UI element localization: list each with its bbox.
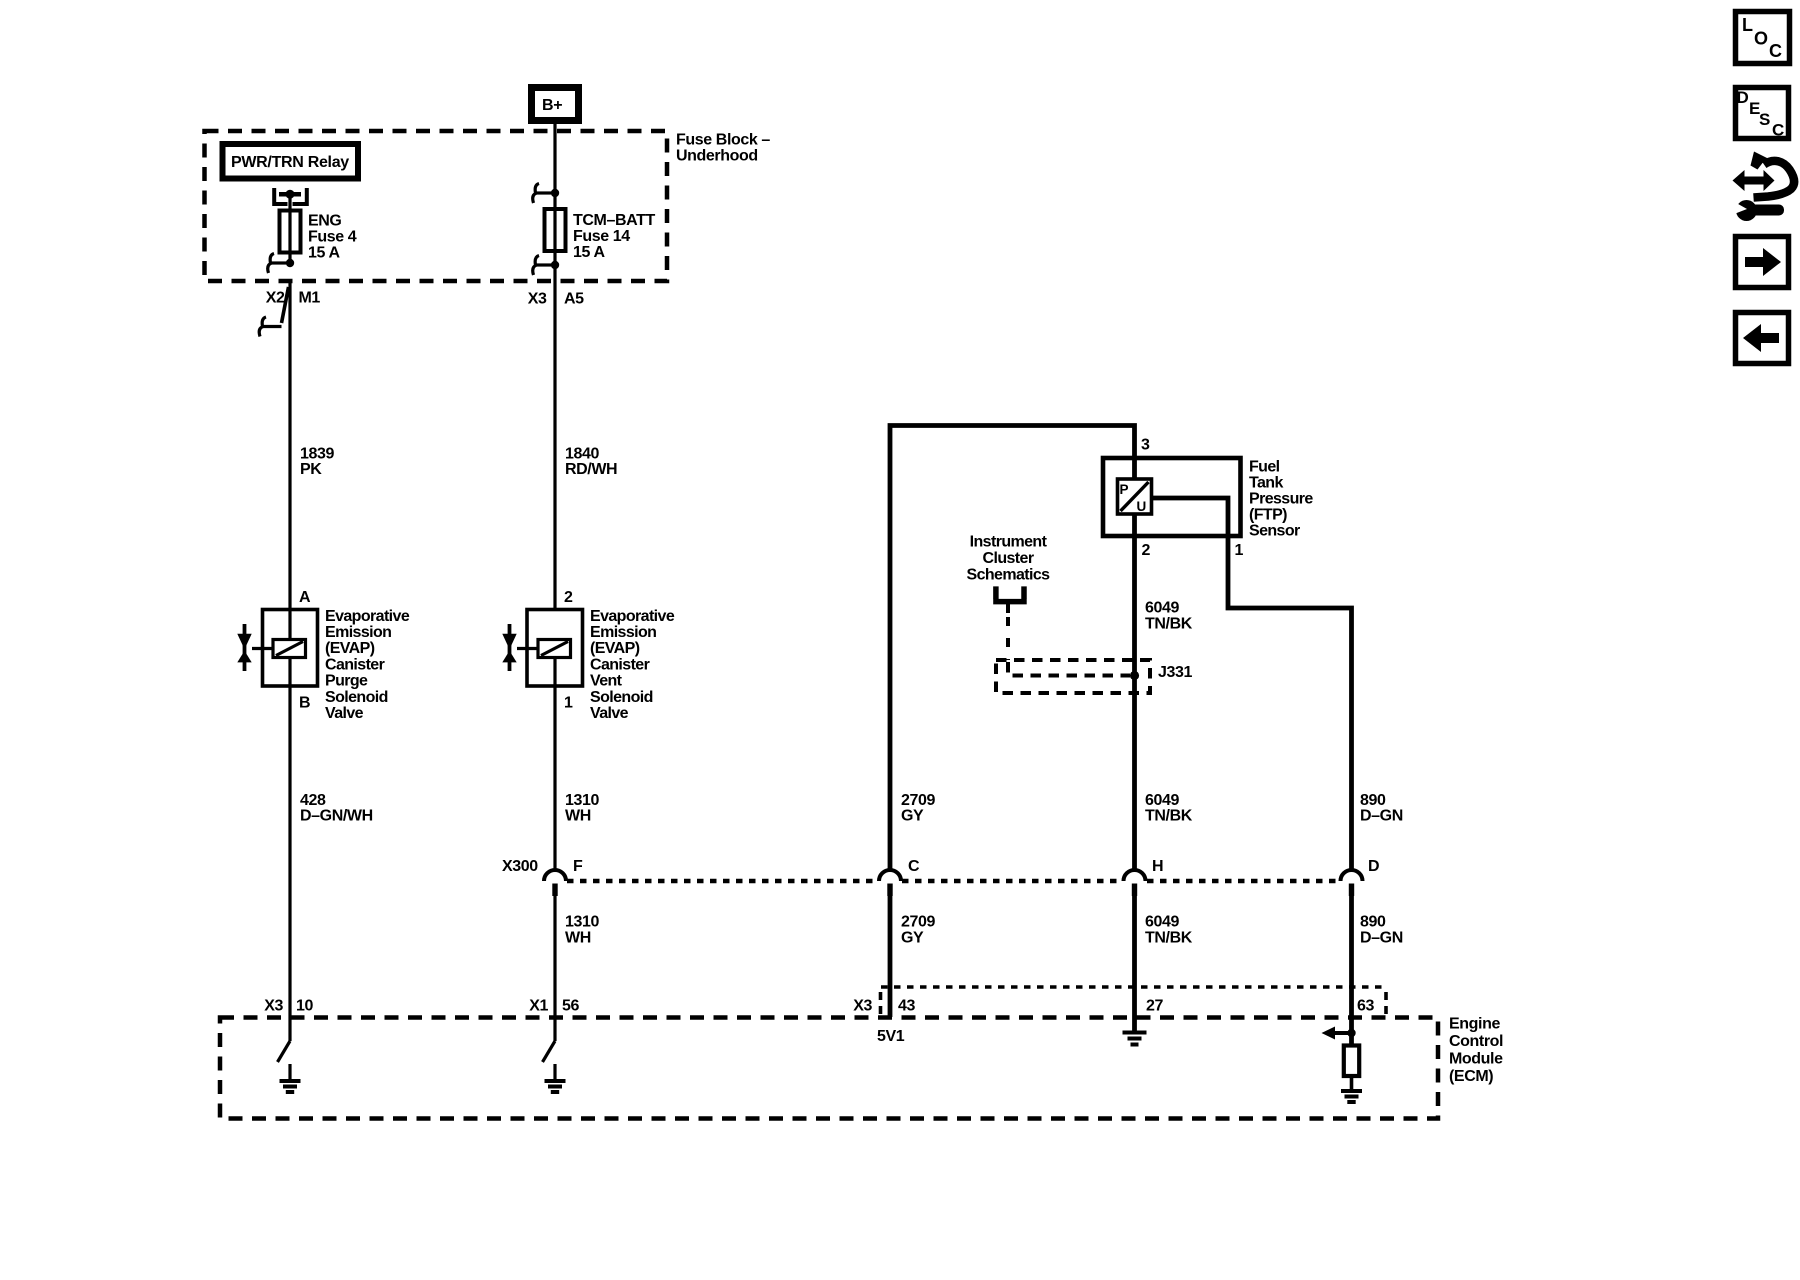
label Engine Control Module (ECM) bbox=[1449, 1016, 1503, 1086]
connector X300 cavity F bbox=[544, 858, 583, 896]
svg-text:1839: 1839 bbox=[300, 446, 334, 463]
relay PWR/TRN Relay label box bbox=[223, 144, 359, 179]
connector X300 cavity D bbox=[1341, 858, 1380, 896]
svg-text:Fuse Block –: Fuse Block – bbox=[676, 132, 770, 149]
svg-text:X300: X300 bbox=[502, 858, 538, 875]
svg-text:Sensor: Sensor bbox=[1249, 523, 1300, 540]
svg-text:X3: X3 bbox=[528, 291, 547, 308]
svg-text:(FTP): (FTP) bbox=[1249, 507, 1287, 524]
icon prev-page arrow button bbox=[1736, 313, 1789, 364]
svg-text:2709: 2709 bbox=[901, 914, 935, 931]
svg-text:D–GN/WH: D–GN/WH bbox=[300, 808, 373, 825]
connector X300 cavity H bbox=[1124, 858, 1164, 896]
svg-text:ENG: ENG bbox=[308, 213, 341, 230]
svg-text:Fuse 14: Fuse 14 bbox=[573, 228, 630, 245]
svg-text:27: 27 bbox=[1146, 998, 1163, 1015]
label wire 890 D-GN (above X300) bbox=[1360, 792, 1403, 825]
svg-text:F: F bbox=[573, 858, 583, 875]
svg-text:C: C bbox=[1772, 121, 1784, 140]
svg-text:2: 2 bbox=[564, 589, 573, 606]
Fuse Block - Underhood dashed box bbox=[205, 131, 668, 281]
splice J331 dashed box bbox=[996, 660, 1150, 693]
svg-text:X1: X1 bbox=[529, 998, 548, 1015]
svg-text:H: H bbox=[1152, 858, 1163, 875]
svg-text:1840: 1840 bbox=[565, 446, 599, 463]
svg-text:X3: X3 bbox=[853, 998, 872, 1015]
fuse terminal clip above TCM-BATT fuse bbox=[533, 184, 559, 204]
svg-text:S: S bbox=[1759, 110, 1770, 129]
svg-text:63: 63 bbox=[1357, 998, 1374, 1015]
off-page reference bracket to Instrument Cluster bbox=[993, 586, 1026, 613]
svg-text:1310: 1310 bbox=[565, 914, 599, 931]
label wire 6049 TN/BK (above X300) bbox=[1145, 792, 1193, 825]
svg-text:6049: 6049 bbox=[1145, 792, 1179, 809]
wire resistor to ground bbox=[1350, 1076, 1354, 1091]
svg-text:GY: GY bbox=[901, 930, 924, 947]
svg-text:Evaporative: Evaporative bbox=[590, 608, 675, 625]
ground below pin 56 bbox=[545, 1064, 566, 1092]
svg-text:C: C bbox=[908, 858, 920, 875]
svg-text:890: 890 bbox=[1360, 914, 1386, 931]
svg-text:D: D bbox=[1368, 858, 1379, 875]
svg-text:PK: PK bbox=[300, 461, 322, 478]
resistor internal pull-up below pin 63 bbox=[1344, 1046, 1359, 1077]
node B+ battery feed bbox=[532, 88, 579, 121]
wire 2709 GY below X300 bbox=[888, 896, 893, 1017]
ground below pin 27 bbox=[1123, 1033, 1147, 1045]
svg-text:Solenoid: Solenoid bbox=[590, 689, 653, 706]
label wire 2709 GY (below X300) bbox=[901, 914, 935, 947]
fuse ENG Fuse 4 15 A bbox=[280, 211, 357, 262]
wire 1310 WH from pin 1 to X300 F bbox=[553, 657, 556, 870]
svg-text:Canister: Canister bbox=[590, 656, 650, 673]
svg-text:Cluster: Cluster bbox=[983, 550, 1034, 567]
svg-text:Pressure: Pressure bbox=[1249, 491, 1313, 508]
connector X300 dotted harness line bbox=[567, 879, 1339, 883]
connector X2 pin M1 labels bbox=[266, 290, 321, 307]
wire FTP pin 1 to 890 D-GN riser bbox=[1152, 498, 1352, 870]
connector terminal clip below X2/M1 bbox=[259, 287, 288, 337]
svg-text:TN/BK: TN/BK bbox=[1145, 808, 1193, 825]
fuse terminal clip below TCM-BATT fuse bbox=[533, 256, 559, 276]
svg-text:1310: 1310 bbox=[565, 792, 599, 809]
driver switch below pin 56 bbox=[543, 1017, 556, 1062]
svg-text:Vent: Vent bbox=[590, 673, 623, 690]
svg-text:D–GN: D–GN bbox=[1360, 930, 1403, 947]
svg-text:1: 1 bbox=[564, 695, 573, 712]
label wire 6049 TN/BK (upper) bbox=[1145, 600, 1193, 633]
label Fuse Block - Underhood bbox=[676, 132, 770, 165]
svg-text:U: U bbox=[1137, 499, 1147, 514]
svg-text:Emission: Emission bbox=[590, 624, 656, 641]
connector X300 cavity C bbox=[879, 858, 920, 896]
svg-text:6049: 6049 bbox=[1145, 914, 1179, 931]
svg-text:J331: J331 bbox=[1158, 664, 1192, 681]
svg-text:Canister: Canister bbox=[325, 656, 385, 673]
svg-text:1: 1 bbox=[1235, 542, 1244, 559]
svg-text:RD/WH: RD/WH bbox=[565, 461, 617, 478]
svg-text:Evaporative: Evaporative bbox=[325, 608, 410, 625]
driver switch below pin 10 bbox=[278, 1017, 291, 1062]
svg-text:TCM–BATT: TCM–BATT bbox=[573, 212, 655, 229]
label wire 2709 GY (above X300) bbox=[901, 792, 935, 825]
solenoid EVAP Canister Vent Solenoid Valve bbox=[517, 610, 583, 687]
svg-text:Control: Control bbox=[1449, 1033, 1503, 1050]
wire 428 D-GN/WH from pin B to ECM pin 10 bbox=[288, 657, 291, 1017]
svg-text:6049: 6049 bbox=[1145, 600, 1179, 617]
svg-text:Fuse 4: Fuse 4 bbox=[308, 229, 357, 246]
svg-text:Fuel: Fuel bbox=[1249, 459, 1280, 476]
wire 1310 WH below X300 bbox=[553, 896, 556, 1017]
svg-text:B: B bbox=[299, 695, 310, 712]
connector X3 pin A5 labels bbox=[528, 291, 584, 308]
node junction and signal arrow below pin 63 bbox=[1322, 1027, 1356, 1040]
wire relay to ENG fuse bbox=[288, 194, 291, 263]
icon DESC button bbox=[1736, 88, 1789, 140]
svg-text:L: L bbox=[1742, 15, 1753, 35]
label wire 1840 RD/WH bbox=[565, 446, 617, 479]
label wire 6049 TN/BK (below X300) bbox=[1145, 914, 1193, 947]
svg-text:5V1: 5V1 bbox=[877, 1028, 905, 1045]
svg-text:Valve: Valve bbox=[325, 705, 364, 722]
svg-text:TN/BK: TN/BK bbox=[1145, 616, 1193, 633]
label wire 1839 PK bbox=[300, 446, 334, 479]
solenoid EVAP Canister Purge Solenoid Valve bbox=[252, 610, 318, 687]
wire 6049 TN/BK below X300 bbox=[1132, 896, 1137, 1033]
svg-text:(ECM): (ECM) bbox=[1449, 1068, 1493, 1085]
svg-text:Emission: Emission bbox=[325, 624, 391, 641]
svg-text:TN/BK: TN/BK bbox=[1145, 930, 1193, 947]
label wire 428 D-GN/WH bbox=[300, 792, 373, 825]
icon LOC button bbox=[1736, 12, 1790, 64]
svg-text:Purge: Purge bbox=[325, 673, 368, 690]
svg-text:10: 10 bbox=[296, 998, 313, 1015]
label wire 1310 WH (below X300) bbox=[565, 914, 599, 947]
svg-text:GY: GY bbox=[901, 808, 924, 825]
icon harness repair (double arrow, hook, wrench) bbox=[1729, 152, 1794, 222]
svg-text:Solenoid: Solenoid bbox=[325, 689, 388, 706]
svg-text:O: O bbox=[1754, 29, 1768, 49]
pressure transducer P/U symbol bbox=[1118, 479, 1152, 514]
svg-text:Instrument: Instrument bbox=[970, 534, 1048, 551]
svg-text:PWR/TRN Relay: PWR/TRN Relay bbox=[231, 154, 349, 171]
svg-text:43: 43 bbox=[898, 998, 915, 1015]
svg-text:3: 3 bbox=[1141, 437, 1150, 454]
label Instrument Cluster Schematics bbox=[967, 534, 1051, 584]
svg-text:D: D bbox=[1737, 88, 1749, 107]
svg-text:Valve: Valve bbox=[590, 705, 629, 722]
svg-text:428: 428 bbox=[300, 792, 326, 809]
svg-text:890: 890 bbox=[1360, 792, 1386, 809]
fuse TCM-BATT Fuse 14 15 A bbox=[545, 209, 656, 261]
icon next-page arrow button bbox=[1736, 237, 1789, 288]
svg-text:Tank: Tank bbox=[1249, 475, 1283, 492]
svg-text:(EVAP): (EVAP) bbox=[325, 640, 375, 657]
ground below pin 10 bbox=[280, 1064, 301, 1092]
ground below resistor bbox=[1341, 1091, 1362, 1102]
svg-text:WH: WH bbox=[565, 930, 591, 947]
svg-text:15 A: 15 A bbox=[308, 245, 340, 262]
dashed branch wire from bracket to J331 bbox=[1006, 617, 1010, 660]
svg-text:A: A bbox=[299, 589, 311, 606]
relay contact symbol bbox=[274, 188, 307, 204]
sensor Fuel Tank Pressure (FTP) box bbox=[1103, 458, 1241, 536]
valve symbol at vent solenoid bbox=[502, 624, 516, 671]
svg-text:B+: B+ bbox=[542, 97, 562, 114]
label Fuel Tank Pressure (FTP) Sensor bbox=[1249, 459, 1313, 540]
svg-text:WH: WH bbox=[565, 808, 591, 825]
svg-text:Underhood: Underhood bbox=[676, 148, 758, 165]
svg-text:X2: X2 bbox=[266, 290, 285, 307]
wire TCM-BATT feed from B+ bbox=[553, 121, 556, 609]
wire 890 D-GN below X300 bbox=[1349, 896, 1354, 1046]
valve symbol at purge solenoid bbox=[237, 624, 251, 671]
svg-text:Schematics: Schematics bbox=[967, 567, 1051, 584]
fuse terminal clip below ENG fuse bbox=[268, 254, 294, 274]
connector X1 pin 56 labels bbox=[529, 998, 579, 1015]
svg-text:D–GN: D–GN bbox=[1360, 808, 1403, 825]
connector X3 dotted boundary at ECM bbox=[881, 987, 1387, 1015]
svg-text:(EVAP): (EVAP) bbox=[590, 640, 640, 657]
connector X3 pin 43 labels bbox=[853, 998, 915, 1015]
svg-text:Engine: Engine bbox=[1449, 1016, 1500, 1033]
svg-text:2709: 2709 bbox=[901, 792, 935, 809]
label EVAP Canister Purge Solenoid Valve bbox=[325, 608, 410, 722]
wire 1839 PK from X2/M1 to purge solenoid pin A bbox=[288, 283, 291, 640]
label wire 890 D-GN (below X300) bbox=[1360, 914, 1403, 947]
svg-text:X3: X3 bbox=[264, 998, 283, 1015]
svg-text:P: P bbox=[1120, 482, 1129, 497]
svg-text:2: 2 bbox=[1142, 542, 1151, 559]
connector X3 pin 10 labels bbox=[264, 998, 313, 1015]
module ECM dashed box bbox=[220, 1018, 1438, 1119]
svg-text:C: C bbox=[1769, 41, 1782, 61]
svg-text:A5: A5 bbox=[564, 291, 584, 308]
wire 2709 GY riser and top run to FTP pin 3 bbox=[890, 426, 1135, 870]
svg-text:Module: Module bbox=[1449, 1051, 1503, 1068]
label wire 1310 WH (above X300) bbox=[565, 792, 599, 825]
svg-text:M1: M1 bbox=[299, 290, 321, 307]
svg-text:15 A: 15 A bbox=[573, 244, 605, 261]
wire FTP pin 2 drop (6049 TN/BK) bbox=[1132, 514, 1137, 870]
svg-text:56: 56 bbox=[562, 998, 579, 1015]
label EVAP Canister Vent Solenoid Valve bbox=[590, 608, 675, 722]
